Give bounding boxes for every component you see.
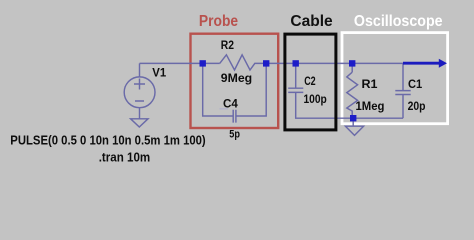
probe box (red) [191, 34, 279, 128]
capacitor C4 branch wires [203, 63, 233, 116]
node: R2 left junction [200, 60, 206, 66]
svg-text:5p: 5p [229, 129, 240, 141]
wire: C1 top lead [402, 63, 404, 90]
wire: R1 top lead [351, 63, 353, 72]
svg-text:Oscilloscope: Oscilloscope [354, 13, 443, 30]
voltage source V1 [124, 77, 155, 108]
svg-text:Probe: Probe [199, 13, 238, 30]
svg-text:PULSE(0 0.5 0 10n 10n 0.5m 1m: PULSE(0 0.5 0 10n 10n 0.5m 1m 100) [10, 133, 205, 147]
capacitor C2 [288, 88, 303, 92]
capacitor C1 [395, 91, 410, 95]
resistor R1 [347, 72, 358, 118]
node: R2 right junction [263, 60, 269, 66]
wire: top rail V1 to R2 left node [140, 62, 220, 64]
faint dash near C4 [220, 108, 229, 110]
svg-text:C4: C4 [223, 97, 238, 111]
svg-text:R1: R1 [362, 77, 378, 91]
capacitor C4 [233, 110, 236, 123]
svg-text:20p: 20p [408, 99, 426, 113]
svg-text:C1: C1 [408, 77, 422, 91]
wire: C2 bottom to rail [296, 92, 403, 118]
svg-text:9Meg: 9Meg [221, 71, 252, 85]
svg-text:.tran 10m: .tran 10m [99, 150, 151, 164]
ground (oscilloscope) [345, 126, 363, 135]
wire: C1 bottom lead [402, 95, 404, 119]
wire: V1 to ground [139, 108, 141, 119]
ground (V1) [131, 119, 148, 127]
wire: R2 right node to C1 corner [266, 62, 403, 64]
svg-text:V1: V1 [152, 65, 166, 79]
svg-text:100p: 100p [304, 92, 327, 106]
svg-text:C2: C2 [304, 74, 316, 88]
node: R1 top junction [349, 60, 355, 66]
cable box (black) [285, 34, 336, 130]
wire: V1 riser [139, 63, 141, 77]
svg-text:Cable: Cable [290, 13, 332, 30]
node: C2 top junction [293, 60, 299, 66]
resistor R2 [220, 55, 267, 70]
wire: scope ground stub [352, 118, 354, 126]
svg-text:R2: R2 [221, 38, 234, 52]
svg-text:1Meg: 1Meg [356, 99, 385, 113]
wire: C2 top lead [295, 63, 297, 88]
node: rail ground junction [350, 115, 356, 121]
oscilloscope box (white) [342, 33, 448, 124]
output arrow [403, 62, 440, 65]
